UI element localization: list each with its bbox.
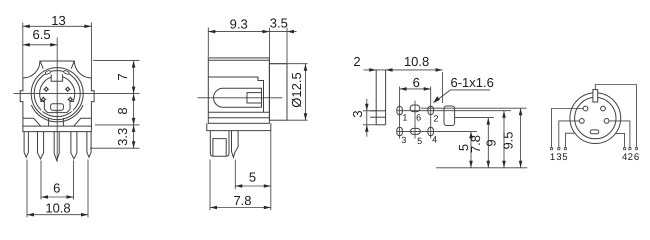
- svg-text:10.8: 10.8: [404, 54, 429, 69]
- svg-text:4: 4: [432, 135, 437, 145]
- svg-text:6.5: 6.5: [33, 27, 51, 42]
- svg-text:9: 9: [484, 139, 499, 146]
- svg-text:7: 7: [115, 73, 130, 80]
- svg-text:3.5: 3.5: [270, 16, 288, 31]
- svg-text:3: 3: [401, 135, 406, 145]
- svg-text:5: 5: [417, 136, 422, 146]
- svg-text:2: 2: [433, 113, 438, 123]
- svg-text:Ø12.5: Ø12.5: [289, 72, 304, 107]
- svg-text:6: 6: [53, 181, 60, 196]
- svg-text:3.3: 3.3: [115, 128, 130, 146]
- svg-text:7.8: 7.8: [468, 135, 483, 153]
- svg-text:6: 6: [634, 152, 639, 163]
- svg-text:6: 6: [416, 113, 421, 123]
- svg-text:6-1x1.6: 6-1x1.6: [451, 75, 494, 90]
- svg-text:7.8: 7.8: [233, 193, 251, 208]
- svg-text:6: 6: [413, 75, 420, 90]
- svg-text:9.5: 9.5: [500, 131, 515, 149]
- svg-text:1: 1: [402, 113, 407, 123]
- svg-text:5: 5: [249, 170, 256, 185]
- svg-text:8: 8: [115, 107, 130, 114]
- svg-text:3: 3: [556, 152, 561, 163]
- svg-text:2: 2: [628, 152, 633, 163]
- svg-text:9.3: 9.3: [230, 16, 248, 31]
- svg-text:10.8: 10.8: [45, 200, 70, 215]
- svg-text:1: 1: [550, 152, 555, 163]
- svg-text:5: 5: [562, 152, 567, 163]
- svg-text:2: 2: [353, 54, 360, 69]
- svg-text:13: 13: [51, 13, 65, 28]
- svg-text:3: 3: [350, 110, 365, 117]
